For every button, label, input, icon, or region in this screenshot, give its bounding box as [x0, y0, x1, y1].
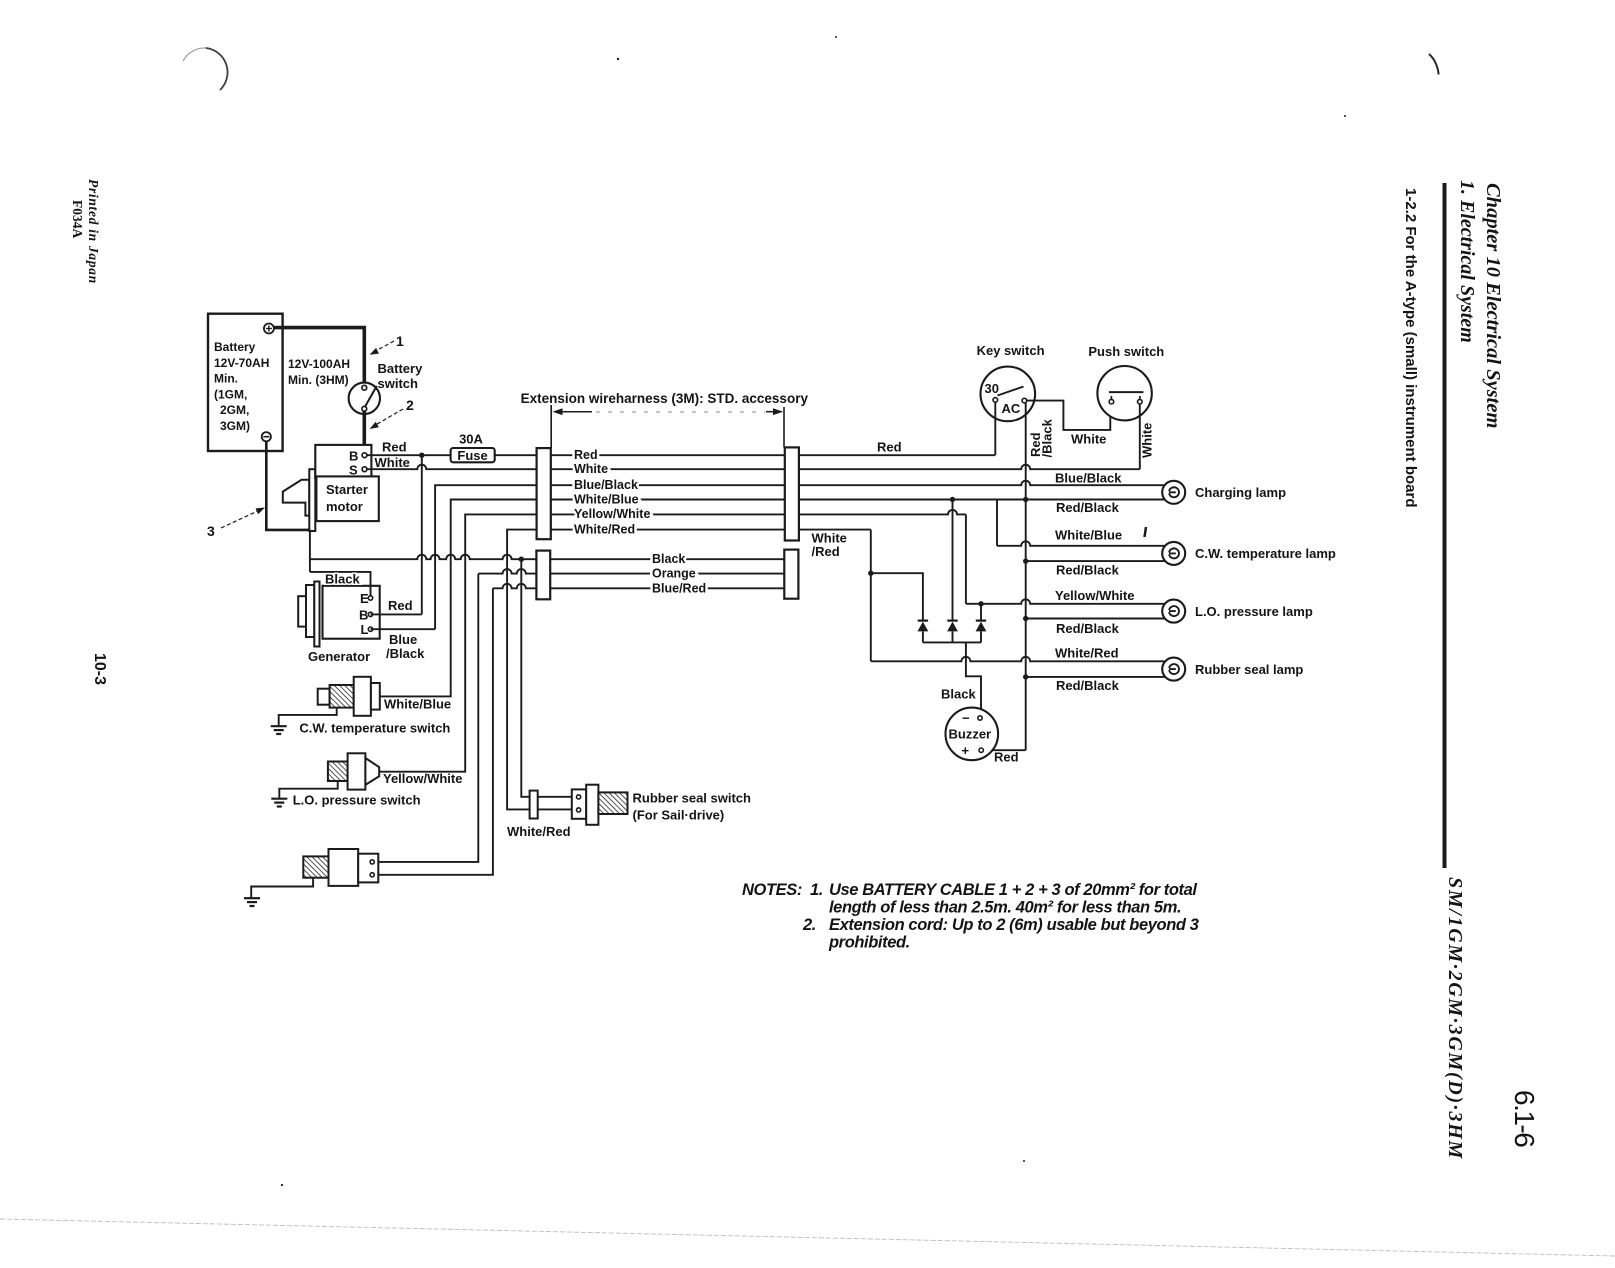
key switch [981, 367, 1036, 422]
svg-text:Charging lamp: Charging lamp [1195, 485, 1286, 500]
lamp C.W. temperature lamp [1162, 542, 1185, 565]
svg-text:(1GM,: (1GM, [214, 387, 247, 401]
svg-text:B: B [359, 608, 368, 623]
C.W. temperature switch threads [330, 685, 354, 708]
svg-text:10-3: 10-3 [91, 653, 108, 685]
rubber seal switch threads [598, 792, 627, 814]
bottom switch body [329, 849, 359, 886]
diode D1 [918, 619, 928, 621]
svg-text:Black: Black [941, 687, 976, 702]
svg-text:/Black: /Black [386, 646, 425, 661]
svg-text:Black: Black [325, 571, 360, 586]
wire black vertical to rubber switch [521, 559, 529, 797]
svg-text:Red/Black: Red/Black [1056, 621, 1120, 636]
svg-text:1: 1 [396, 333, 404, 349]
scan artifact ring top-left [206, 48, 228, 90]
svg-text:/Black: /Black [1040, 418, 1055, 457]
key switch lever [998, 387, 1024, 396]
wire CW red/black return [1026, 560, 1165, 562]
wire orange vertical to bottom switch [478, 569, 536, 574]
diode D3 [976, 619, 986, 621]
svg-text:Blue: Blue [389, 632, 417, 647]
svg-text:Starter: Starter [326, 482, 368, 497]
svg-text:1-2.2 For the A-type (small) i: 1-2.2 For the A-type (small) instrument … [1402, 188, 1419, 508]
svg-text:Push switch: Push switch [1088, 344, 1164, 359]
wire white/blue + red/black return (charging) [799, 499, 1165, 501]
wire B red [371, 613, 422, 615]
L.O. pressure switch taper [365, 758, 379, 785]
svg-text:Extension cord: Up to 2 (6m) u: Extension cord: Up to 2 (6m) usable but … [829, 916, 1199, 934]
svg-text:Buzzer: Buzzer [949, 727, 992, 742]
L.O. pressure switch threads [328, 762, 348, 782]
wire diode1 feed from white/red [871, 573, 923, 620]
svg-text:2GM,: 2GM, [220, 403, 249, 417]
starter motor flange [283, 480, 310, 516]
extension bracket right tick [783, 407, 785, 447]
fuse 30A [451, 448, 495, 462]
svg-text:S: S [349, 463, 358, 478]
svg-text:12V-70AH: 12V-70AH [214, 356, 269, 370]
svg-text:Min.: Min. [214, 372, 238, 386]
svg-text:30: 30 [985, 381, 999, 396]
extension bracket left tick [550, 405, 552, 448]
wire red/black vertical from AC [1025, 403, 1027, 750]
svg-text:Blue/Red: Blue/Red [652, 581, 706, 595]
generator mid section [306, 585, 314, 637]
L.O. pressure switch body [348, 753, 366, 789]
svg-text:Use BATTERY CABLE 1 + 2 + 3 of: Use BATTERY CABLE 1 + 2 + 3 of 20mm² for… [829, 881, 1197, 899]
svg-text:Black: Black [652, 552, 685, 566]
wire diode3 feed [980, 604, 982, 621]
svg-text:Blue/Black: Blue/Black [1055, 471, 1122, 486]
harness wires C3-C4 [550, 558, 784, 560]
svg-text:Key switch: Key switch [977, 343, 1045, 358]
wire E black [310, 572, 371, 596]
C.W. temperature switch tip [318, 689, 330, 705]
wire LO red/black return [1026, 618, 1165, 620]
svg-text:Red/Black: Red/Black [1056, 678, 1120, 693]
wire yellow/white vertical to LO switch [379, 514, 536, 771]
svg-text:White/Red: White/Red [574, 522, 635, 536]
C.W. temperature switch collar [371, 683, 380, 710]
wire blue/black vertical to L [435, 485, 536, 629]
wire rubber red/black return [1026, 676, 1165, 678]
svg-text:1. Electrical System: 1. Electrical System [1456, 180, 1478, 343]
svg-text:White/Blue: White/Blue [384, 697, 451, 712]
wire diode2 feed [952, 500, 954, 621]
svg-text:Rubber seal switch: Rubber seal switch [633, 791, 752, 806]
ground (C.W. switch) [271, 725, 287, 727]
svg-text:White/Blue: White/Blue [574, 492, 639, 506]
rubber seal switch terminal block [572, 789, 586, 818]
wire yellow/white to LO lamp [799, 510, 966, 515]
wire white/blue vertical to CW switch [380, 500, 537, 697]
bottom switch terminal block [358, 854, 378, 883]
rubber seal connector [530, 791, 538, 819]
svg-text:+: + [962, 743, 970, 758]
svg-text:White/Blue: White/Blue [1055, 528, 1122, 543]
harness wires C1-C2 [551, 454, 785, 456]
lamp L.O. pressure lamp [1162, 600, 1185, 623]
svg-text:−: − [962, 711, 970, 726]
wire blue/red vertical to bottom switch [493, 584, 537, 588]
starter motor terminal box [315, 445, 371, 478]
svg-text:Battery: Battery [378, 361, 424, 376]
C.W. switch ground wire [279, 708, 337, 726]
scan artifact mark top-right [1429, 54, 1439, 75]
junction dot black-rubber [519, 557, 524, 562]
svg-text:2.: 2. [802, 916, 816, 934]
wire white/blue step to CW lamp [996, 500, 998, 546]
svg-text:Yellow/White: Yellow/White [574, 507, 650, 521]
svg-text:3: 3 [207, 523, 215, 539]
svg-text:C.W. temperature switch: C.W. temperature switch [299, 721, 450, 736]
wire white/red vertical to rubber switch [507, 530, 536, 810]
connector block C4 [784, 550, 798, 599]
svg-text:Chapter 10 Electrical System: Chapter 10 Electrical System [1482, 183, 1504, 428]
wire AC to push switch [1027, 401, 1111, 430]
svg-text:White/Red: White/Red [507, 824, 571, 839]
svg-text:Fuse: Fuse [457, 448, 487, 463]
svg-text:White: White [375, 455, 410, 470]
wire white conn2-to-push [799, 465, 1140, 469]
buzzer [946, 708, 999, 761]
wire bus to buzzer minus [966, 642, 981, 715]
svg-text:Extension wireharness (3M): ST: Extension wireharness (3M): STD. accesso… [521, 391, 809, 406]
svg-text:2: 2 [406, 397, 414, 413]
generator body [323, 586, 380, 639]
svg-text:Min. (3HM): Min. (3HM) [288, 373, 349, 387]
lamp Charging lamp [1162, 481, 1185, 504]
svg-text:Red: Red [994, 750, 1019, 765]
wire key30 to red [994, 402, 996, 455]
svg-text:1.: 1. [810, 881, 823, 899]
starter motor plate [309, 469, 315, 531]
svg-text:3GM): 3GM) [220, 419, 250, 433]
L.O. switch ground wire [279, 781, 337, 798]
svg-text:AC: AC [1002, 401, 1021, 416]
svg-text:Red/Black: Red/Black [1056, 500, 1120, 515]
battery switch [349, 383, 380, 414]
svg-text:SM/1GM·2GM·3GM(D)·3HM: SM/1GM·2GM·3GM(D)·3HM [1444, 877, 1466, 1160]
bottom switch threads [303, 856, 328, 877]
svg-text:Red/Black: Red/Black [1056, 563, 1120, 578]
C.W. temperature switch body [354, 677, 371, 716]
svg-text:L.O. pressure lamp: L.O. pressure lamp [1195, 604, 1313, 619]
svg-text:Yellow/White: Yellow/White [1055, 588, 1134, 603]
battery box [208, 314, 283, 451]
svg-text:Printed in Japan: Printed in Japan [86, 179, 101, 284]
svg-text:C.W. temperature lamp: C.W. temperature lamp [1195, 546, 1336, 561]
diode cathode bus [923, 641, 981, 643]
svg-text:Battery: Battery [214, 340, 256, 354]
svg-text:motor: motor [326, 499, 363, 514]
wire Red fuse-to-conn1 [495, 454, 537, 456]
wire black starter-to-conn3 [310, 555, 537, 560]
junction dot gen-B red [419, 453, 424, 458]
battery - terminal [262, 432, 271, 441]
svg-text:Red: Red [877, 440, 902, 455]
svg-text:White: White [574, 462, 608, 476]
svg-text:Red: Red [382, 440, 407, 455]
ground (bottom switch) [244, 897, 260, 899]
svg-text:6.1-6: 6.1-6 [1509, 1090, 1540, 1147]
svg-text:Yellow/White: Yellow/White [383, 771, 462, 786]
rubber seal switch wires [538, 796, 572, 798]
generator end cap [298, 596, 306, 626]
connector block C1 [537, 448, 551, 539]
svg-text:Rubber seal lamp: Rubber seal lamp [1195, 662, 1303, 677]
connector block C2 [785, 447, 799, 540]
wire blue/black conn2-to-charging-lamp [799, 481, 1165, 485]
wire red conn2-to-key [799, 454, 995, 456]
lamp Rubber seal lamp [1162, 658, 1185, 681]
battery plus cable (thick) [274, 328, 365, 386]
junction dots on wb/return line [950, 497, 955, 502]
bottom switch ground wire [251, 878, 313, 898]
svg-text:Red: Red [388, 598, 413, 613]
battery minus cable [266, 441, 310, 530]
svg-text:Blue/Black: Blue/Black [574, 478, 638, 492]
wire white/red route to rubber lamp [799, 529, 871, 531]
svg-text:NOTES:: NOTES: [742, 881, 802, 899]
extension dimension arrows [556, 411, 592, 413]
svg-text:length of less than 2.5m. 40m²: length of less than 2.5m. 40m² for less … [829, 899, 1181, 917]
svg-text:switch: switch [378, 376, 419, 391]
svg-text:L.O. pressure switch: L.O. pressure switch [293, 792, 421, 807]
svg-text:Generator: Generator [308, 649, 370, 664]
junction dot diode3 feed [978, 601, 983, 606]
svg-text:prohibited.: prohibited. [828, 934, 910, 952]
starter motor body box [316, 476, 378, 521]
svg-text:/Red: /Red [812, 544, 840, 559]
starter chassis to black wire vertical [309, 530, 311, 572]
ground (L.O. switch) [271, 798, 287, 800]
wire red gen-B vertical [421, 455, 423, 614]
svg-text:30A: 30A [459, 432, 483, 447]
svg-text:F034A: F034A [70, 200, 85, 238]
specks [617, 58, 619, 60]
svg-text:Red: Red [574, 448, 598, 462]
svg-text:White/Red: White/Red [1055, 646, 1119, 661]
faint bottom rule [0, 1219, 1615, 1256]
svg-text:L: L [361, 622, 369, 637]
wire Red B-to-fuse [367, 454, 451, 456]
wire L blue/black [371, 628, 436, 630]
svg-text:White: White [1071, 432, 1106, 447]
connector block C3 [536, 551, 550, 600]
battery + terminal [264, 324, 274, 334]
rubber seal switch body [586, 785, 598, 825]
svg-text:White: White [1140, 423, 1155, 458]
svg-text:(For Sail·drive): (For Sail·drive) [633, 808, 725, 823]
generator plate [314, 582, 319, 647]
wire red buzzer link [983, 749, 1025, 751]
cable switch to B terminal (thick) [362, 411, 366, 452]
wire push to white line [1139, 404, 1141, 469]
svg-text:B: B [349, 449, 358, 464]
svg-text:Orange: Orange [652, 567, 696, 581]
push switch [1097, 366, 1151, 420]
svg-text:12V-100AH: 12V-100AH [288, 357, 350, 371]
tick mark near CW lamp [1145, 527, 1147, 537]
wire White S-to-conn1 [367, 465, 537, 470]
diode D2 [947, 619, 957, 621]
margin rule [1443, 183, 1447, 868]
